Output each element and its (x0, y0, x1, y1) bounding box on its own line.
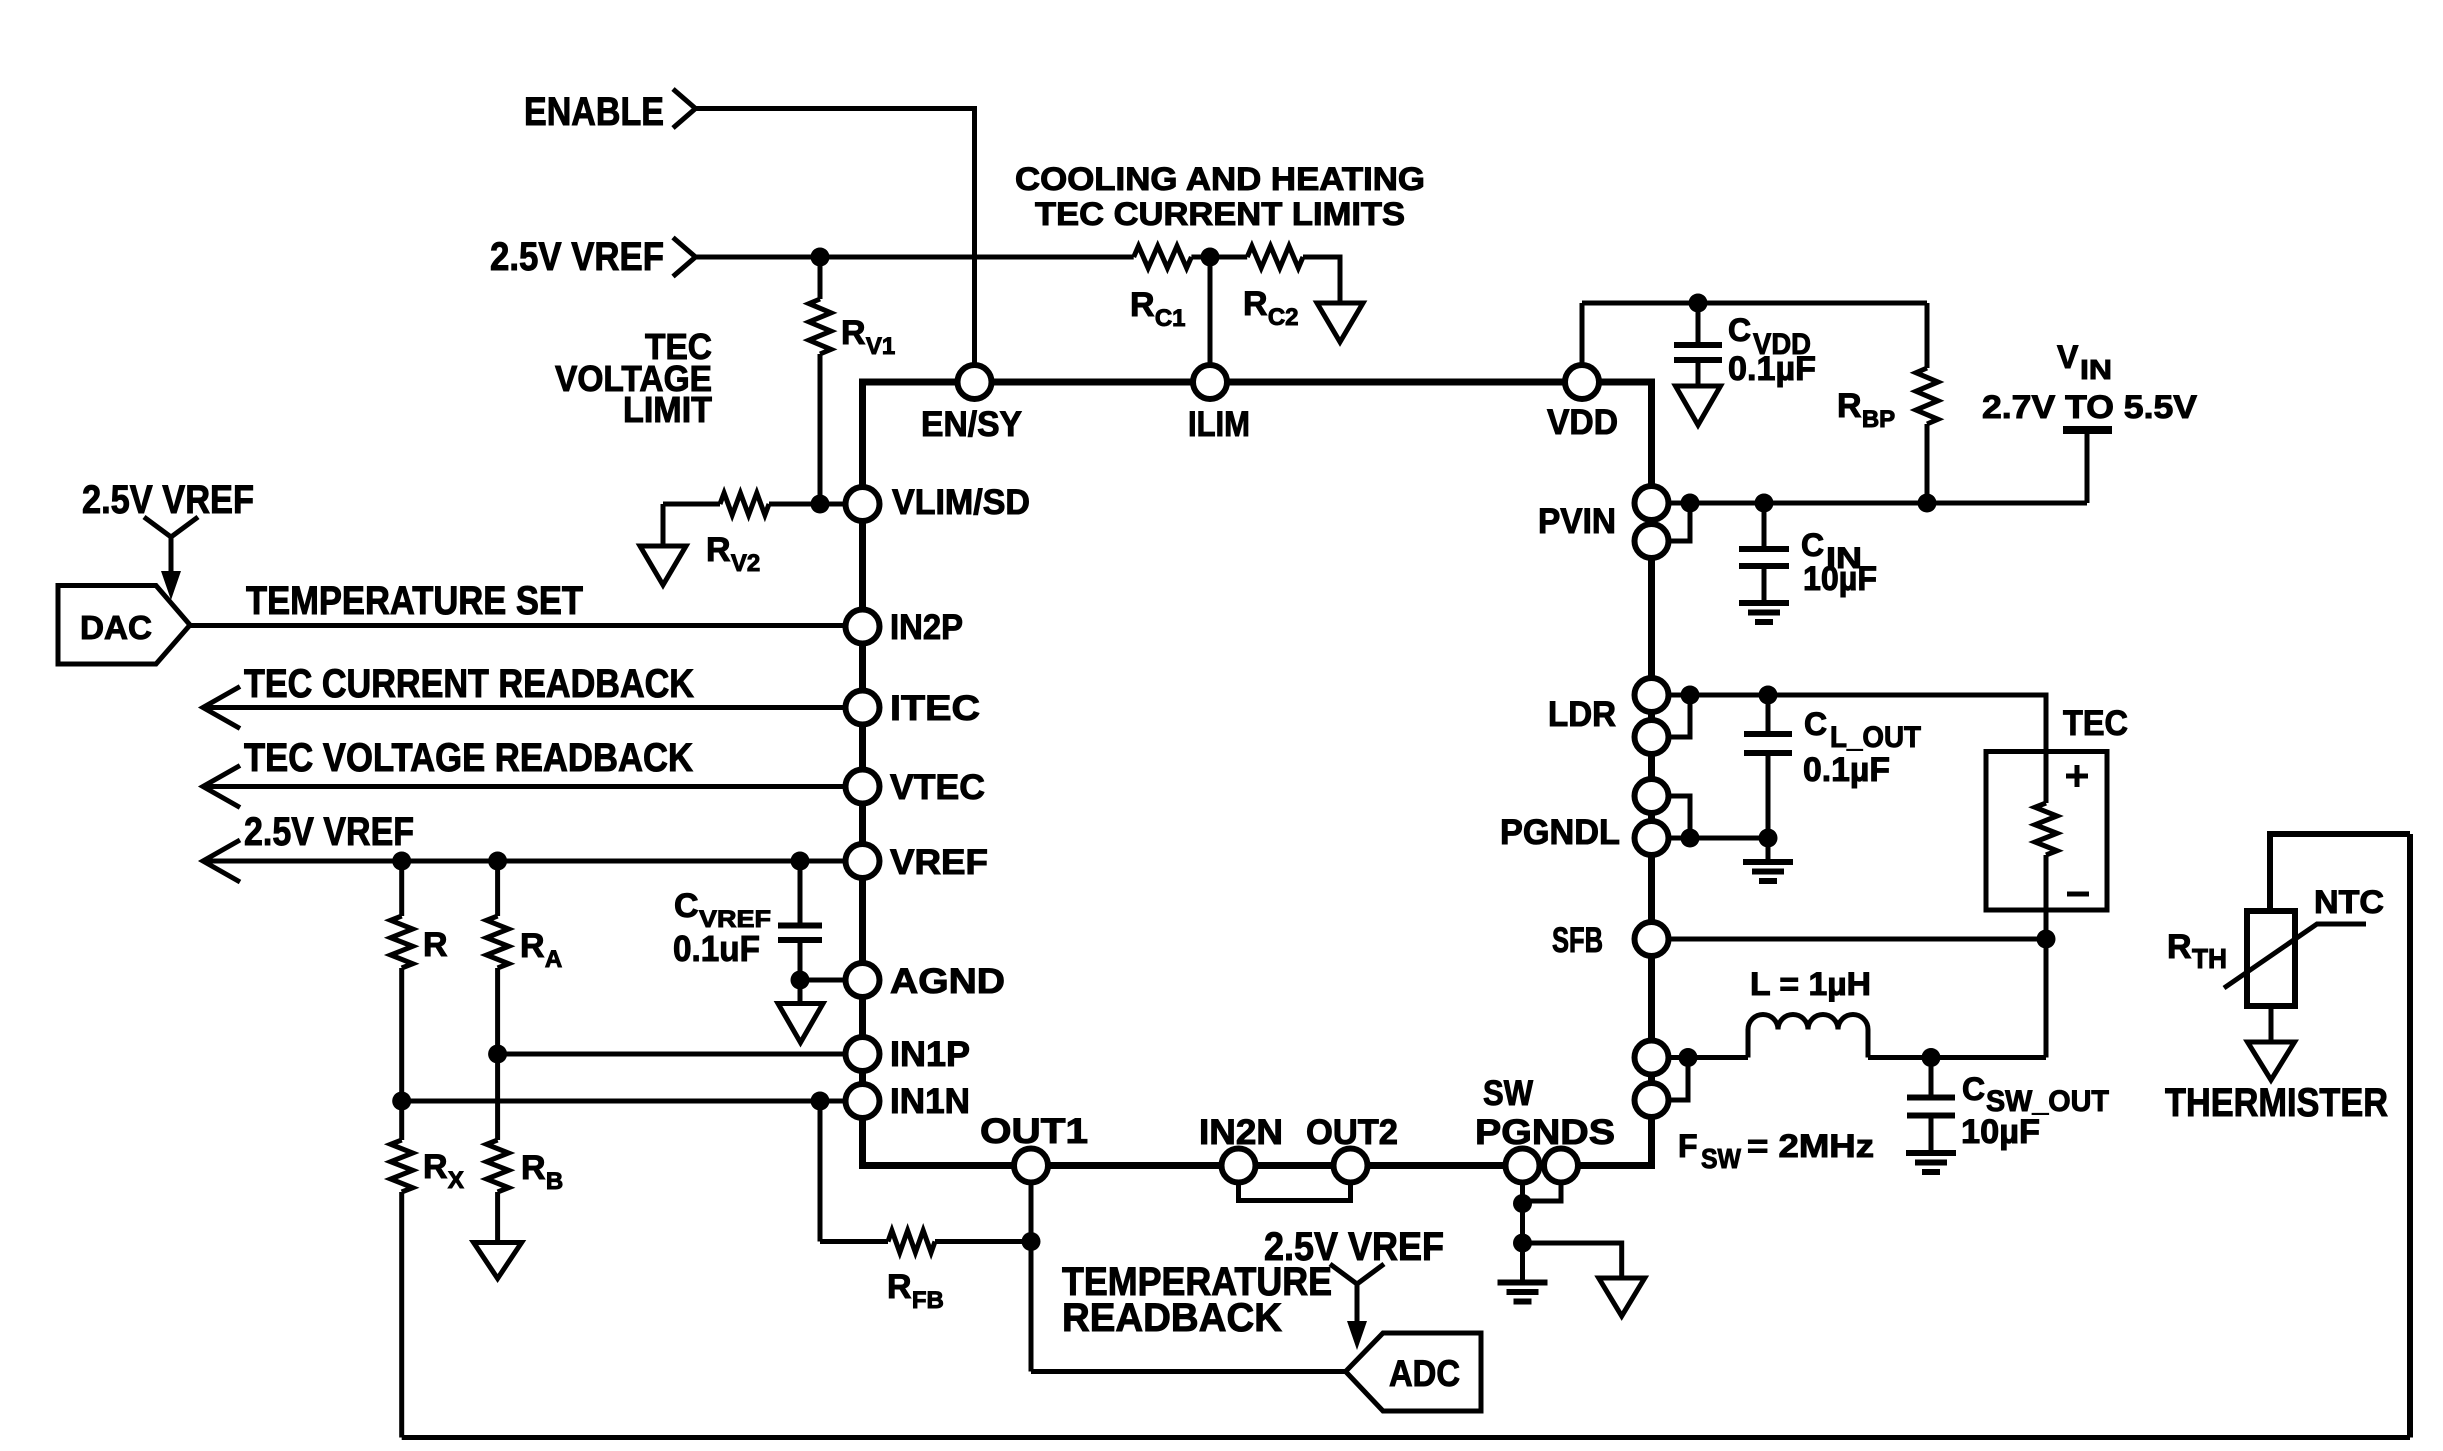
svg-text:2.5V VREF: 2.5V VREF (82, 478, 254, 522)
resistor RFB label (887, 1268, 944, 1314)
pin IN2P (846, 610, 880, 644)
svg-text:IN2P: IN2P (890, 608, 963, 647)
wire thermistor bottom (2269, 1006, 2274, 1042)
wire bottom rail (402, 1435, 2410, 1440)
pin SFB label (1552, 921, 1603, 960)
svg-text:R: R (520, 927, 545, 965)
svg-text:SFB: SFB (1552, 921, 1603, 960)
svg-text:SW: SW (1483, 1074, 1533, 1113)
junction CL_OUT top (1759, 686, 1778, 705)
svg-text:ENABLE: ENABLE (524, 90, 664, 134)
pin LDR upper (1635, 678, 1669, 712)
node ENABLE input chevron (673, 89, 696, 128)
junction CL_OUT bottom (1759, 829, 1778, 848)
pin ITEC (846, 691, 880, 725)
svg-text:2.5V VREF: 2.5V VREF (1264, 1225, 1444, 1269)
svg-text:R: R (1837, 387, 1862, 425)
wire 2.5V VREF to RC1 (696, 255, 1134, 260)
pin IN2P label (890, 608, 963, 647)
svg-text:LDR: LDR (1548, 695, 1616, 734)
wire SFB (1668, 937, 2046, 942)
wire PVIN lower pin stub (1668, 503, 1690, 541)
pin AGND (846, 963, 880, 997)
svg-text:V2: V2 (731, 550, 760, 577)
ground arrow below thermistor (2248, 1042, 2295, 1080)
capacitor CVREF (778, 861, 822, 980)
resistor RA label (520, 927, 562, 973)
pin ILIM label (1188, 405, 1250, 444)
node 2.5V VREF label above ADC (1264, 1225, 1444, 1269)
junction 2.5V VREF / RV1 (811, 248, 830, 267)
ground below CSW_OUT (1906, 1153, 1956, 1172)
ground below CL_OUT (1743, 862, 1793, 881)
pin OUT1 (1014, 1149, 1048, 1183)
junction VREF / CVREF (791, 852, 810, 871)
wire PGNDS to chassis ground (1523, 1243, 1622, 1278)
svg-text:FB: FB (912, 1287, 944, 1314)
pin SFB (1635, 922, 1669, 956)
junction PVIN stub (1681, 494, 1700, 513)
resistor inside TEC (2035, 752, 2057, 940)
node ENABLE label (524, 90, 664, 134)
svg-text:AGND: AGND (890, 962, 1005, 1001)
pin ILIM (1193, 365, 1227, 399)
junction CVREF / AGND (791, 971, 810, 990)
svg-text:LIMIT: LIMIT (623, 389, 712, 430)
svg-text:NTC: NTC (2314, 884, 2384, 920)
svg-text:C: C (1728, 312, 1751, 348)
inductor L label (1750, 966, 1871, 1002)
block DAC (58, 586, 190, 665)
svg-text:R: R (1130, 286, 1155, 324)
pin EN/SY (958, 365, 992, 399)
pin AGND label (890, 962, 1005, 1001)
resistor RC2 (1247, 246, 1340, 303)
resistor RC1 (1134, 246, 1248, 268)
junction PGNDS stub (1513, 1194, 1532, 1213)
svg-text:A: A (545, 946, 562, 973)
svg-text:B: B (546, 1168, 563, 1195)
svg-text:PGNDS: PGNDS (1475, 1113, 1615, 1152)
svg-text:VREF: VREF (890, 843, 988, 882)
wire TEC top lead (2044, 695, 2049, 752)
TEC plus sign (2066, 765, 2088, 787)
svg-text:TEMPERATURE SET: TEMPERATURE SET (246, 579, 583, 623)
svg-text:ILIM: ILIM (1188, 405, 1250, 444)
capacitor CVREF label (673, 887, 771, 969)
pin SW label (1483, 1074, 1533, 1113)
ground (triangle) right of PGNDS (1599, 1278, 1645, 1316)
svg-text:C2: C2 (1268, 304, 1299, 331)
svg-text:THERMISTER: THERMISTER (2165, 1081, 2388, 1125)
svg-text:SW: SW (1701, 1143, 1742, 1174)
junction RBP bottom (1918, 494, 1937, 513)
svg-text:TEC: TEC (2063, 704, 2128, 743)
svg-text:VDD: VDD (1547, 403, 1618, 442)
ground below CVDD (1676, 386, 1721, 425)
svg-text:VLIM/SD: VLIM/SD (892, 483, 1030, 522)
pin ITEC label (890, 689, 980, 728)
label TEMPERATURE SET (246, 579, 583, 623)
wire SW lower pin stub (1668, 1058, 1688, 1101)
junction CVDD (1689, 294, 1708, 313)
junction CSW_OUT (1922, 1048, 1941, 1067)
junction SFB / TEC (2037, 930, 2056, 949)
junction RC1 / RC2 / ILIM (1201, 248, 1220, 267)
svg-text:0.1µF: 0.1µF (1803, 751, 1890, 789)
pin EN/SY label (921, 405, 1022, 444)
resistor RV1 (809, 257, 831, 504)
junction R / RX / IN1N (392, 1092, 411, 1111)
TEC minus sign (2067, 892, 2089, 897)
wire OUT1 down to ADC (1031, 1183, 1346, 1372)
wire LDR lower pin stub (1668, 695, 1690, 737)
svg-text:R: R (706, 531, 731, 569)
pin PVIN upper (1635, 486, 1669, 520)
pin VDD (1565, 365, 1599, 399)
op-amp U1 ADN8834 IC outline (863, 382, 1652, 1166)
svg-text:PGNDL: PGNDL (1500, 813, 1620, 852)
resistor RA (487, 861, 509, 1054)
resistor RC2 label (1243, 285, 1299, 331)
pin PGNDS right (1544, 1149, 1578, 1183)
junction LDR stub (1681, 686, 1700, 705)
wire PGNDS left pin down (1520, 1183, 1525, 1281)
label TEC CURRENT READBACK (244, 662, 694, 706)
wire PVIN rail (1668, 501, 2087, 506)
svg-text:L = 1µH: L = 1µH (1750, 966, 1871, 1002)
svg-text:TEC CURRENT READBACK: TEC CURRENT READBACK (244, 662, 694, 706)
svg-text:OUT2: OUT2 (1306, 1113, 1398, 1152)
svg-text:10µF: 10µF (1961, 1113, 2040, 1151)
pin IN1P (846, 1037, 880, 1071)
svg-text:R: R (841, 314, 866, 352)
wire ENABLE to EN/SY pin (696, 109, 975, 367)
inductor L (1748, 1015, 1868, 1058)
capacitor CL_OUT label (1803, 706, 1921, 789)
wire PGNDL upper pin stub (1668, 796, 1690, 838)
wire IN1P (498, 1052, 847, 1057)
component TEC label (2063, 704, 2128, 743)
svg-text:R: R (1243, 285, 1268, 323)
junction VREF / R (392, 852, 411, 871)
node 2.5V VREF label above DAC (82, 478, 254, 522)
svg-text:R: R (521, 1149, 546, 1187)
pin PVIN label (1538, 502, 1616, 541)
power VIN terminal (2063, 430, 2112, 503)
svg-text:0.1µF: 0.1µF (1728, 350, 1816, 388)
label FSW = 2MHz (1678, 1128, 1874, 1174)
svg-text:PVIN: PVIN (1538, 502, 1616, 541)
ground below AGND (778, 980, 823, 1043)
wire AGND pin (800, 978, 847, 983)
wire CL_OUT to ground (1766, 838, 1771, 862)
junction RV1 / RV2 / VLIM/SD (811, 495, 830, 514)
wire LDR to TEC (1668, 695, 2046, 752)
wire TEC node up to SFB (2044, 939, 2049, 1058)
svg-text:C: C (1801, 527, 1824, 563)
svg-text:DAC: DAC (80, 609, 152, 646)
pin VTEC (846, 770, 880, 804)
resistor RV2 label (706, 531, 760, 577)
svg-text:VTEC: VTEC (890, 768, 985, 807)
svg-text:EN/SY: EN/SY (921, 405, 1022, 444)
pin VLIM/SD label (892, 483, 1030, 522)
junction SW (1679, 1048, 1698, 1067)
capacitor CIN (1739, 503, 1789, 603)
label NTC (2314, 884, 2384, 920)
pin PGNDL lower (1635, 821, 1669, 855)
resistor RFB (820, 1101, 1031, 1253)
wire VREF output with arrow (203, 840, 847, 882)
thermistor RTH label (2167, 928, 2227, 974)
resistor RV2 (663, 493, 847, 515)
capacitor CL_OUT (1744, 695, 1792, 838)
junction IN1N / RFB (811, 1092, 830, 1111)
pin VREF label (890, 843, 988, 882)
svg-text:2.7V TO 5.5V: 2.7V TO 5.5V (1982, 389, 2198, 425)
ground below RV2 (640, 504, 686, 585)
pin SW upper (1635, 1041, 1669, 1075)
pin IN1N (846, 1084, 880, 1118)
junction PGNDL stub (1681, 829, 1700, 848)
pin PGNDS label (1475, 1113, 1615, 1152)
resistor R (391, 861, 413, 1101)
svg-text:TEC VOLTAGE READBACK: TEC VOLTAGE READBACK (244, 736, 693, 780)
svg-text:IN: IN (2080, 354, 2112, 385)
svg-text:ITEC: ITEC (890, 689, 980, 728)
wire SW to inductor (1668, 1055, 1748, 1060)
resistor RBP (1916, 303, 1938, 503)
wire ITEC readback with arrow (203, 687, 847, 729)
ground below CIN (1739, 603, 1789, 622)
wire IN2N-OUT2 jumper (1239, 1183, 1351, 1201)
svg-text:0.1uF: 0.1uF (673, 928, 760, 969)
resistor RV1 label (841, 314, 895, 360)
pin VTEC label (890, 768, 985, 807)
power VIN label (1982, 339, 2198, 425)
pin PGNDS left (1506, 1149, 1540, 1183)
svg-text:TEC CURRENT LIMITS: TEC CURRENT LIMITS (1035, 196, 1405, 232)
svg-text:V: V (2057, 339, 2079, 375)
svg-text:C: C (674, 887, 699, 925)
ground (bars) below PGNDS (1498, 1283, 1548, 1302)
svg-text:C: C (1962, 1071, 1985, 1107)
wire VTEC readback with arrow (203, 766, 847, 808)
pin OUT2 (1334, 1149, 1368, 1183)
wire IN1N (402, 1099, 847, 1104)
wire thermistor right column (2407, 834, 2413, 1438)
ground below RB (474, 1243, 522, 1279)
svg-text:ADC: ADC (1389, 1353, 1460, 1394)
pin VREF (846, 844, 880, 878)
svg-text:R: R (423, 926, 448, 964)
resistor R label (423, 926, 448, 964)
label COOLING AND HEATING TEC CURRENT LIMITS (1015, 161, 1425, 232)
resistor RB label (521, 1149, 563, 1195)
junction VREF / RA (488, 852, 507, 871)
svg-text:TH: TH (2192, 943, 2227, 974)
svg-text:L_OUT: L_OUT (1830, 721, 1921, 754)
junction PGNDS ground split (1513, 1234, 1532, 1253)
pin LDR label (1548, 695, 1616, 734)
svg-text:X: X (448, 1167, 464, 1194)
svg-text:2.5V VREF: 2.5V VREF (490, 235, 664, 279)
component TEC box (1986, 752, 2107, 911)
svg-text:OUT1: OUT1 (980, 1112, 1088, 1151)
svg-text:R: R (887, 1268, 912, 1306)
svg-text:IN1N: IN1N (890, 1082, 970, 1121)
pin VLIM/SD (846, 487, 880, 521)
pin IN1P label (890, 1035, 970, 1074)
svg-text:C: C (1804, 706, 1827, 742)
svg-text:READBACK: READBACK (1062, 1296, 1282, 1340)
svg-text:IN2N: IN2N (1199, 1113, 1283, 1152)
wire PGNDL (1668, 836, 1768, 841)
svg-text:R: R (2167, 928, 2192, 966)
junction CIN (1755, 494, 1774, 513)
thermistor RTH body (2224, 911, 2366, 1006)
pin IN2N label (1199, 1113, 1283, 1152)
label TEC VOLTAGE READBACK (244, 736, 693, 780)
pin PVIN lower (1635, 524, 1669, 558)
svg-text:COOLING AND HEATING: COOLING AND HEATING (1015, 161, 1425, 197)
label TEMPERATURE READBACK (1062, 1260, 1332, 1340)
wire PGNDS right pin stub (1523, 1183, 1562, 1201)
wire VDD top rail (1582, 301, 1927, 306)
resistor RC1 label (1130, 286, 1186, 332)
label THERMISTER (2165, 1081, 2388, 1125)
node 2.5V VREF label (top) (490, 235, 664, 279)
pin IN1N label (890, 1082, 970, 1121)
resistor RBP label (1837, 387, 1895, 433)
node 2.5V VREF input chevron (top) (673, 238, 696, 277)
svg-text:F: F (1678, 1128, 1698, 1164)
svg-text:R: R (423, 1148, 448, 1186)
ground below RC2 (1317, 303, 1363, 342)
svg-text:IN1P: IN1P (890, 1035, 970, 1074)
label 2.5V VREF output (left) (244, 810, 414, 854)
junction RFB / OUT1 (1022, 1232, 1041, 1251)
resistor RX (391, 1101, 413, 1438)
wire inductor to TEC node (1868, 1055, 2046, 1060)
resistor RX label (423, 1148, 464, 1194)
svg-text:C1: C1 (1155, 305, 1186, 332)
capacitor CSW_OUT label (1961, 1071, 2109, 1151)
pin LDR lower (1635, 720, 1669, 754)
capacitor CVDD label (1728, 312, 1816, 388)
pin PGNDL label (1500, 813, 1620, 852)
pin OUT2 label (1306, 1113, 1398, 1152)
wire VDD pin up (1580, 303, 1585, 366)
node 2.5V VREF arrow into ADC (1330, 1264, 1384, 1350)
wire DAC to IN2P (190, 623, 847, 628)
wire thermistor top (2270, 834, 2410, 911)
resistor RB (487, 1054, 509, 1243)
svg-text:BP: BP (1862, 406, 1895, 433)
wire ILIM junction to ILIM pin (1208, 257, 1213, 366)
junction RA / IN1P (488, 1045, 507, 1064)
svg-text:10µF: 10µF (1803, 560, 1877, 598)
capacitor CVDD (1674, 303, 1722, 386)
svg-text:= 2MHz: = 2MHz (1747, 1128, 1874, 1164)
pin VDD label (1547, 403, 1618, 442)
pin PGNDL upper (1635, 779, 1669, 813)
block ADC (1346, 1333, 1481, 1411)
pin SW lower (1635, 1083, 1669, 1117)
capacitor CSW_OUT (1907, 1058, 1955, 1154)
svg-text:V1: V1 (866, 333, 895, 360)
label TEC VOLTAGE LIMIT (555, 326, 712, 430)
pin OUT1 label (980, 1112, 1088, 1151)
svg-text:2.5V VREF: 2.5V VREF (244, 810, 414, 854)
node 2.5V VREF arrow into DAC (144, 517, 198, 600)
pin IN2N (1222, 1149, 1256, 1183)
capacitor CIN label (1801, 527, 1877, 598)
